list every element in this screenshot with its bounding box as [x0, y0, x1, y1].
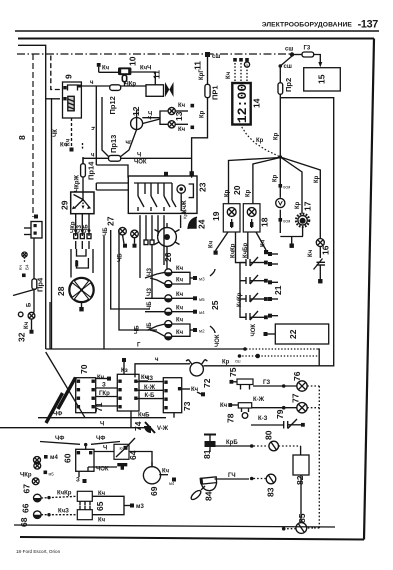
clock feed wires (dotted) — [234, 63, 236, 81]
svg-text:Кч: Кч — [176, 266, 184, 272]
terminal 83 — [215, 473, 276, 497]
wire panel drop — [318, 349, 319, 366]
svg-text:17: 17 — [303, 201, 313, 211]
svg-text:27: 27 — [106, 216, 116, 226]
svg-text:18: 18 — [260, 217, 270, 227]
svg-text:Кч: Кч — [162, 469, 170, 475]
svg-text:Кч: Кч — [176, 278, 184, 284]
svg-text:A: A — [245, 63, 248, 68]
svg-text:80: 80 — [264, 430, 274, 440]
svg-text:ЧФ: ЧФ — [53, 412, 62, 418]
svg-text:м5: м5 — [199, 297, 205, 302]
svg-text:ЧОК: ЧОК — [96, 467, 109, 473]
svg-text:77: 77 — [291, 393, 301, 403]
svg-text:Кч: Кч — [176, 292, 184, 298]
lamps 67/66/68 column — [19, 462, 54, 527]
svg-text:м4: м4 — [50, 455, 58, 461]
relay 74 — [117, 358, 150, 431]
svg-text:м3: м3 — [199, 277, 205, 282]
svg-text:Кч: Кч — [226, 71, 232, 79]
fuse housing Пр13 (funnel) — [83, 97, 192, 164]
svg-text:ЧФ: ЧФ — [55, 436, 64, 442]
wire ЧБ pair — [103, 236, 105, 349]
svg-text:84: 84 — [204, 491, 214, 501]
svg-text:чг: чг — [126, 140, 132, 146]
wires 70 to 74 — [96, 378, 107, 380]
figure top border — [18, 38, 374, 40]
svg-text:ЧОК: ЧОК — [134, 160, 147, 166]
svg-text:Ч: Ч — [137, 153, 141, 159]
svg-text:ЧК: ЧК — [53, 129, 59, 137]
relay 19 — [211, 204, 240, 232]
svg-text:78: 78 — [226, 413, 236, 423]
wire with arrow into 15 — [314, 55, 321, 64]
node Кр junction — [279, 155, 283, 159]
fuse Пр12 — [110, 85, 121, 91]
svg-text:12:00: 12:00 — [235, 84, 250, 124]
lamp cluster feed from 26 — [166, 246, 168, 268]
lamp pair 27 — [103, 216, 138, 247]
svg-text:Пр4: Пр4 — [36, 277, 45, 292]
ignition switch 23 — [128, 171, 207, 219]
svg-text:м4: м4 — [169, 481, 175, 486]
lamp pair 13 — [142, 103, 194, 133]
gauge 12 — [131, 106, 160, 129]
motor 11 — [131, 70, 173, 97]
svg-text:Кр: Кр — [314, 175, 320, 183]
svg-text:ЧОК: ЧОК — [251, 324, 257, 337]
svg-text:25: 25 — [210, 300, 220, 310]
terminal 80 — [216, 430, 279, 451]
svg-text:20: 20 — [232, 185, 242, 195]
svg-text:З: З — [76, 478, 80, 484]
svg-text:КчКр: КчКр — [57, 491, 72, 497]
svg-text:Кч: Кч — [261, 239, 267, 247]
node Г junction — [243, 347, 247, 351]
relay 18 — [243, 204, 269, 232]
svg-text:КчЗ: КчЗ — [58, 508, 69, 514]
svg-text:Кч: Кч — [102, 65, 110, 71]
node сш top right — [290, 52, 294, 56]
svg-text:осм: осм — [283, 185, 290, 190]
svg-text:V-Ж: V-Ж — [157, 426, 169, 432]
svg-text:21: 21 — [273, 285, 283, 295]
wires left into 23 — [96, 182, 128, 184]
relay 9 — [63, 74, 82, 118]
switch unit 26 (round) — [155, 223, 180, 262]
svg-text:КрБ: КрБ — [226, 440, 238, 446]
terminal Кч м1 left — [60, 143, 83, 151]
svg-text:72: 72 — [202, 378, 212, 388]
svg-text:Кр: Кр — [273, 174, 279, 182]
svg-text:КрГ: КрГ — [199, 69, 205, 80]
motor unit 60 — [63, 449, 95, 483]
svg-text:ЧКр: ЧКр — [20, 473, 32, 479]
svg-text:67: 67 — [22, 484, 32, 494]
wire Кр dotted arc from clock — [242, 127, 281, 157]
svg-text:Кч: Кч — [98, 518, 106, 524]
wire ЧОК from 60 — [88, 466, 117, 468]
heater fan 28 — [56, 249, 94, 311]
svg-text:КчКр: КчКр — [230, 243, 236, 258]
bottom bus line — [14, 525, 335, 527]
horn 24 — [182, 200, 207, 229]
lamp 32 — [17, 312, 35, 342]
fuse ПР1 — [192, 57, 220, 178]
digital clock 14 — [226, 58, 280, 157]
contacts inside 23 — [134, 182, 172, 184]
harness boundary 8 (dashed) — [32, 54, 34, 217]
wire ч left of Пр13 to Пр14 — [83, 158, 109, 163]
svg-text:76: 76 — [292, 371, 302, 381]
svg-text:29: 29 — [60, 200, 70, 210]
svg-text:Б: Б — [27, 302, 33, 307]
flasher unit 65 — [41, 491, 144, 524]
node junction dot — [255, 354, 260, 359]
fuse Пр4 — [13, 277, 45, 312]
switch 75 — [228, 367, 253, 389]
svg-text:Кч: Кч — [18, 264, 23, 270]
svg-text:73: 73 — [182, 401, 192, 411]
connector symbol — [22, 252, 27, 257]
svg-text:14: 14 — [252, 98, 262, 108]
svg-text:ЧБ: ЧБ — [135, 325, 141, 334]
svg-text:Пр12: Пр12 — [108, 96, 117, 114]
wire feed to relay 9 (dashed harness) — [51, 56, 60, 90]
switch column 21 — [268, 252, 283, 318]
wire ч right of Пр13 — [121, 157, 192, 159]
svg-text:Кр: Кр — [225, 189, 231, 197]
svg-text:71: 71 — [94, 402, 104, 412]
distributor symbol — [144, 426, 151, 433]
svg-text:м2: м2 — [199, 329, 205, 334]
terminal м1 — [70, 148, 74, 152]
wires below 19/18 — [216, 232, 229, 251]
svg-text:75: 75 — [228, 367, 238, 377]
svg-text:Кч: Кч — [178, 103, 186, 109]
lamp 16 — [280, 157, 330, 283]
lamp м2 pair — [165, 321, 172, 328]
svg-text:ГЧ: ГЧ — [228, 473, 236, 479]
svg-text:К-З: К-З — [258, 416, 268, 422]
unit 15 — [304, 68, 341, 91]
svg-text:ПР1: ПР1 — [211, 85, 220, 100]
wire diagonal from border to bus — [46, 352, 85, 418]
svg-text:81: 81 — [202, 449, 212, 459]
lamp м5 — [165, 295, 172, 302]
svg-text:ГКр: ГКр — [99, 391, 110, 397]
svg-text:Кр: Кр — [222, 360, 230, 366]
svg-text:19: 19 — [211, 211, 221, 221]
wires below 29 — [71, 214, 92, 249]
switch 10 — [97, 56, 152, 87]
svg-text:69: 69 — [149, 486, 159, 496]
svg-text:ЧКрЖ: ЧКрЖ — [75, 174, 81, 192]
svg-text:Кч: Кч — [209, 240, 215, 248]
svg-text:16: 16 — [321, 245, 331, 255]
svg-text:18·Ford Escort, Orion: 18·Ford Escort, Orion — [16, 549, 61, 554]
svg-text:Пр13: Пр13 — [109, 135, 118, 153]
svg-text:66: 66 — [21, 503, 31, 513]
horn 69 — [129, 452, 176, 497]
svg-text:Кч: Кч — [60, 143, 68, 149]
wire К-Ж from 74 — [139, 380, 148, 382]
svg-text:Кч: Кч — [220, 403, 228, 409]
bus line Ч — [0, 427, 145, 429]
svg-text:11: 11 — [193, 61, 203, 70]
svg-text:Кр: Кр — [295, 201, 301, 209]
left connector block — [18, 215, 42, 279]
svg-text:сш: сш — [285, 47, 293, 53]
svg-text:12: 12 — [131, 106, 141, 116]
svg-text:65: 65 — [95, 501, 105, 511]
page header title — [262, 19, 379, 31]
svg-text:Б4: Б4 — [25, 264, 30, 270]
wire ч vertical — [95, 86, 97, 165]
svg-text:Г: Г — [137, 343, 141, 349]
switch 78 — [220, 397, 265, 423]
terminal 85 — [282, 386, 319, 533]
svg-text:24: 24 — [197, 219, 207, 229]
svg-text:ЧЗ: ЧЗ — [147, 268, 153, 276]
wire 10 drop — [124, 82, 126, 86]
control unit 82 — [279, 446, 310, 523]
svg-text:85: 85 — [297, 513, 307, 523]
svg-text:13: 13 — [174, 111, 184, 121]
figure bottom border — [20, 537, 364, 540]
svg-text:ч: ч — [155, 357, 159, 363]
svg-text:15: 15 — [317, 74, 327, 84]
svg-text:Кч: Кч — [176, 330, 184, 336]
svg-text:ЧБ: ЧБ — [103, 227, 109, 236]
svg-text:КчБр: КчБр — [243, 243, 249, 258]
bus line ЧФ — [38, 417, 166, 419]
ignition key strokes — [58, 378, 76, 410]
switch column 25 — [210, 257, 268, 333]
svg-text:10: 10 — [128, 56, 138, 66]
wire after Пр12 — [121, 85, 146, 87]
svg-text:м4: м4 — [199, 310, 205, 315]
svg-text:ЧЗ: ЧЗ — [147, 288, 153, 296]
svg-text:82: 82 — [295, 475, 305, 485]
svg-text:ч: ч — [91, 126, 97, 130]
solenoid symbol — [117, 463, 127, 470]
unit 22 — [251, 324, 329, 344]
svg-text:28: 28 — [56, 286, 66, 296]
svg-text:ЭЛЕКТРООБОРУДОВАНИЕ: ЭЛЕКТРООБОРУДОВАНИЕ — [262, 22, 353, 29]
svg-text:74: 74 — [133, 421, 143, 431]
svg-text:Кч: Кч — [308, 249, 314, 257]
fuse Пр14 — [75, 157, 96, 192]
svg-text:Кр: Кр — [274, 132, 280, 140]
switch unit 70/71 — [76, 364, 104, 412]
fuse Г3 — [294, 54, 302, 56]
wires above 19/18 — [229, 158, 281, 204]
svg-text:Пр2: Пр2 — [284, 78, 293, 92]
wire ч from 9 to fuse Пр12 — [81, 85, 109, 87]
svg-text:Кр: Кр — [256, 138, 264, 144]
svg-text:Кр: Кр — [246, 189, 252, 197]
wire stub near border corner — [49, 302, 51, 349]
svg-text:ч: ч — [90, 80, 94, 86]
svg-text:м5: м5 — [49, 472, 55, 477]
svg-text:ч: ч — [148, 116, 152, 122]
svg-text:26: 26 — [163, 252, 173, 262]
svg-text:З: З — [102, 383, 106, 389]
svg-text:сш: сш — [284, 64, 292, 70]
svg-text:Кр: Кр — [200, 110, 206, 118]
svg-text:ЧБ: ЧБ — [147, 301, 153, 310]
lamp м4 — [165, 308, 172, 315]
terminal 76 — [253, 371, 319, 391]
dashed panel edge — [246, 348, 318, 350]
node бус to ПР1 — [205, 52, 210, 57]
sensor 81 — [202, 435, 216, 460]
svg-text:23: 23 — [198, 182, 208, 192]
svg-text:сш: сш — [235, 359, 241, 364]
wire ЧОК into 23 — [96, 165, 128, 178]
svg-text:22: 22 — [288, 329, 298, 339]
svg-text:Г3: Г3 — [304, 46, 311, 52]
wire Кч below 9 (dashed) — [71, 118, 73, 147]
sender 17 (toothed wheel) — [280, 157, 312, 227]
svg-text:ЧОК: ЧОК — [215, 334, 221, 347]
svg-text:9: 9 — [64, 74, 74, 79]
flasher relay 29 — [60, 192, 95, 214]
svg-text:осм: осм — [283, 219, 290, 224]
instrument lamp cluster 26 lamps — [145, 266, 205, 340]
svg-text:Кч: Кч — [97, 375, 105, 381]
clock symbol (dash clock) — [273, 157, 304, 248]
switch 64 — [94, 438, 138, 460]
sensor 72 — [135, 357, 262, 388]
svg-text:8: 8 — [17, 135, 27, 140]
wire main dash-dot bus — [17, 53, 292, 55]
svg-text:Кч: Кч — [24, 321, 30, 329]
svg-text:ЧКр: ЧКр — [125, 82, 137, 88]
svg-text:ч: ч — [91, 153, 95, 159]
svg-text:Ч: Ч — [100, 422, 104, 428]
lamp м3 pair — [165, 269, 172, 276]
lamp м4 left — [34, 457, 41, 464]
figure right border — [364, 39, 374, 540]
wire ground bus Г — [46, 348, 245, 350]
svg-text:11: 11 — [152, 70, 162, 79]
wire ЧК from 9 — [52, 99, 61, 349]
svg-text:КчЧ: КчЧ — [140, 66, 151, 72]
svg-text:32: 32 — [17, 332, 27, 342]
propeller of 11 — [165, 82, 169, 97]
svg-text:К-Ж: К-Ж — [253, 397, 265, 403]
relay 73 — [135, 376, 205, 413]
svg-text:сш: сш — [212, 54, 220, 60]
svg-text:Пр14: Пр14 — [87, 161, 96, 180]
sensor 84 — [190, 477, 217, 501]
header rule — [15, 30, 379, 32]
svg-text:Кч: Кч — [120, 446, 125, 451]
svg-text:83: 83 — [266, 487, 276, 497]
panel box edge — [111, 230, 150, 309]
svg-text:Кч: Кч — [176, 318, 184, 324]
terminal 77 — [252, 393, 320, 413]
svg-text:КчЖ: КчЖ — [182, 200, 188, 213]
switch 79 — [251, 409, 305, 428]
svg-text:-137: -137 — [358, 19, 379, 31]
wire top feed — [18, 45, 46, 349]
svg-text:Кч: Кч — [176, 305, 184, 311]
svg-text:Кч: Кч — [178, 127, 186, 133]
svg-text:ГЗ: ГЗ — [263, 380, 270, 386]
svg-text:60: 60 — [63, 453, 73, 463]
svg-text:70: 70 — [79, 364, 89, 374]
wire long right drop from 15 — [262, 98, 334, 366]
svg-text:ЧФ: ЧФ — [96, 436, 105, 442]
svg-text:79: 79 — [275, 409, 285, 419]
svg-text:Ч: Ч — [103, 446, 107, 452]
svg-text:м3: м3 — [136, 504, 144, 510]
wires below 23 — [139, 215, 141, 278]
fuse Пр2 branch — [274, 56, 294, 157]
